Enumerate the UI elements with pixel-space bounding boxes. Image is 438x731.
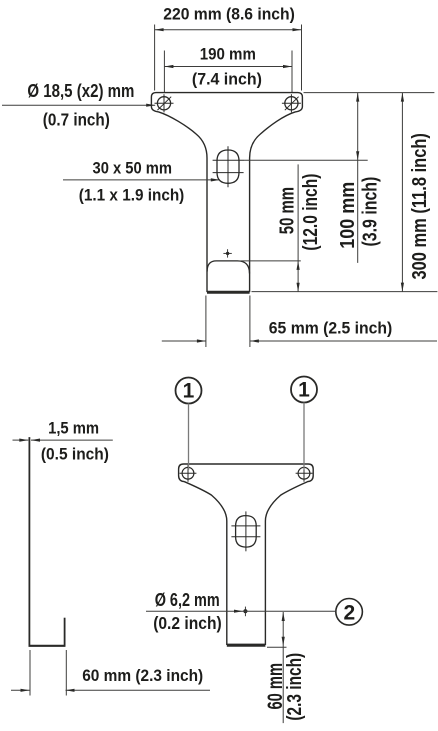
svg-text:(3.9 inch): (3.9 inch) <box>359 177 381 247</box>
svg-text:(0.7 inch): (0.7 inch) <box>43 110 110 130</box>
svg-text:Ø 6,2 mm: Ø 6,2 mm <box>155 590 220 610</box>
svg-text:1: 1 <box>298 378 310 401</box>
dim 65mm: line left tail <box>162 340 206 342</box>
dim 1.5mm line right tail <box>31 439 113 441</box>
svg-text:30 x 50 mm: 30 x 50 mm <box>93 159 173 178</box>
dim 65mm: extension lines below stem <box>205 296 207 348</box>
svg-text:65 mm (2.5 inch): 65 mm (2.5 inch) <box>269 319 393 338</box>
arrow 65 left <box>197 339 206 342</box>
bracket front-view outline <box>179 464 314 644</box>
arrow 50 top <box>297 261 300 270</box>
dim 220mm: line <box>155 29 302 31</box>
side view lip upturn <box>64 618 66 647</box>
dim 190mm: line <box>164 66 292 68</box>
arrow 220 right <box>293 28 302 31</box>
hole right (top view) <box>282 94 301 112</box>
arrow leader 6.2 <box>234 610 243 613</box>
slot (front view) <box>231 511 260 551</box>
svg-text:(0.2 inch): (0.2 inch) <box>153 613 222 633</box>
dim 60mm side: extension lines <box>29 650 31 696</box>
dim 60mm side: left tail <box>11 689 30 691</box>
arrow 60 side left <box>21 689 30 692</box>
dim 50mm line <box>297 164 299 291</box>
arrow 100 bottom <box>356 151 359 160</box>
bracket top-view outline <box>151 93 302 292</box>
dim 100mm line <box>357 93 359 263</box>
dimension graphics (lower drawing) <box>11 440 336 723</box>
arrow 60 front bottom <box>282 637 285 646</box>
ext line slot top-arc center <box>244 159 368 161</box>
svg-text:2: 2 <box>344 602 356 625</box>
hole right (front view) <box>296 465 313 482</box>
leader callout 1 right <box>303 403 305 471</box>
dim 60mm front: line <box>282 612 284 723</box>
dim 1.5mm line left tail <box>13 439 29 441</box>
side view bottom lip <box>29 645 66 647</box>
hole left (front view) <box>180 465 197 482</box>
dim 60mm side: right tail <box>66 689 211 691</box>
slot 30x50 (top view) <box>213 146 244 187</box>
dim 220mm: extension lines <box>154 25 156 91</box>
arrow 190 left <box>164 65 173 68</box>
arrow 220 left <box>155 28 164 31</box>
arrow 50 bottom <box>297 283 300 292</box>
center point marker <box>223 249 231 257</box>
ext line bend line right <box>241 260 301 262</box>
arrow leader 30x50 <box>211 178 220 181</box>
svg-text:(7.4 inch): (7.4 inch) <box>192 70 262 89</box>
svg-text:(12.0 inch): (12.0 inch) <box>300 174 322 251</box>
arrow 1.5 left <box>19 439 28 442</box>
arrow 60 side right <box>66 689 75 692</box>
svg-text:190 mm: 190 mm <box>200 44 256 63</box>
arrow 1.5 right <box>31 439 40 442</box>
svg-text:100 mm: 100 mm <box>337 182 359 249</box>
callout leaders <box>189 403 305 471</box>
leader hole dia 18.5 <box>2 104 155 106</box>
ext line stem bottom right (front view) <box>267 646 287 648</box>
stem bottom edge thick (top view) <box>207 291 250 294</box>
hole left (top view) <box>155 94 174 112</box>
dim 190mm: extension lines <box>163 51 165 93</box>
svg-text:(1.1 x 1.9 inch): (1.1 x 1.9 inch) <box>79 186 185 205</box>
side view wall <box>28 437 30 646</box>
arrow 300 top <box>401 93 404 102</box>
dim 65mm: line right tail <box>250 340 437 342</box>
small hole 6.2 (front view) <box>243 607 247 617</box>
leader dia 6.2 <box>146 610 336 612</box>
callout circle 2 <box>336 599 363 626</box>
svg-text:1,5 mm: 1,5 mm <box>48 419 99 438</box>
ext line top plate right <box>304 92 435 94</box>
arrow leader 18.5 <box>146 104 155 107</box>
leader callout 1 left <box>188 404 190 471</box>
dim 300mm line <box>401 93 403 292</box>
arrow 60 front top <box>282 612 285 621</box>
svg-text:1: 1 <box>183 379 195 402</box>
leader slot 30x50 <box>63 179 220 181</box>
arrowheads (top view) <box>146 28 404 343</box>
bend tab at stem bottom (top view) <box>207 261 249 274</box>
arrow 190 right <box>283 65 292 68</box>
svg-text:60 mm (2.3 inch): 60 mm (2.3 inch) <box>82 666 203 685</box>
baseline right of stem bottom <box>252 291 438 293</box>
callout circle 1 left <box>176 378 202 404</box>
svg-text:300 mm (11.8 inch): 300 mm (11.8 inch) <box>409 133 431 279</box>
arrow 100 top <box>356 93 359 102</box>
stem bottom edge thick (front view) <box>227 644 266 647</box>
svg-text:Ø 18,5 (x2) mm: Ø 18,5 (x2) mm <box>27 81 134 101</box>
texts (lower drawing) <box>41 419 306 721</box>
arrow 65 right <box>250 339 259 342</box>
callout circle 1 right <box>291 377 317 403</box>
svg-text:220 mm (8.6 inch): 220 mm (8.6 inch) <box>163 4 294 23</box>
svg-text:(0.5 inch): (0.5 inch) <box>41 445 109 464</box>
svg-text:50 mm: 50 mm <box>276 187 298 234</box>
svg-text:(2.3 inch): (2.3 inch) <box>284 653 306 721</box>
arrow 300 bottom <box>401 283 404 292</box>
arrowheads (lower drawing) <box>19 439 285 692</box>
